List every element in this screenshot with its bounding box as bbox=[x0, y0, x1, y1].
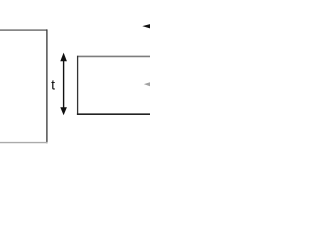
faint leader arrowhead mid right (cropped) bbox=[144, 82, 151, 87]
right plate: top edge bbox=[78, 55, 151, 57]
right plate: left edge bbox=[77, 56, 79, 115]
left plate: top edge bbox=[0, 29, 47, 31]
leader arrowhead top right (cropped) bbox=[142, 24, 151, 29]
thickness dimension arrow (double-headed) bbox=[63, 59, 65, 109]
left plate: bottom edge bbox=[0, 142, 48, 144]
right plate: bottom edge bbox=[77, 113, 151, 115]
svg-text:t: t bbox=[51, 76, 55, 92]
left plate: right edge bbox=[46, 29, 48, 143]
